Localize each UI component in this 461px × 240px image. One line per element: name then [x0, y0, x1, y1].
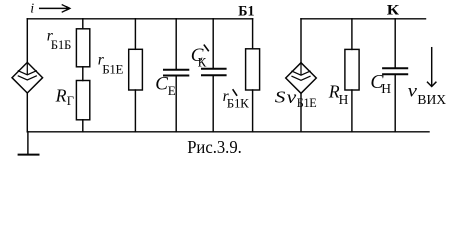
capacitor CH plate bottom	[383, 73, 407, 75]
capacitor CH plate top	[383, 67, 407, 69]
controlled source SvB1E arrow stem	[300, 63, 302, 75]
svg-text:Г: Г	[67, 94, 74, 108]
wire rB1E to bottom rail	[134, 90, 136, 132]
wire branch CH top	[394, 19, 396, 68]
current source G1 arrow chevron 2	[18, 76, 36, 80]
capacitor CK plate bottom	[202, 74, 226, 76]
svg-text:Б1Е: Б1Е	[102, 62, 123, 77]
wire SvB1E to bottom rail	[300, 93, 302, 132]
ground lead	[27, 132, 29, 154]
prime mark of rB1K	[233, 90, 237, 95]
wire between rB1B and RG	[82, 67, 84, 81]
svg-text:Б1Е: Б1Е	[297, 96, 317, 110]
wire branch rB1E top	[134, 19, 136, 50]
resistor rB1K body	[246, 49, 260, 90]
wire CE to bottom rail	[175, 76, 177, 131]
output voltage arrowhead	[428, 82, 436, 86]
wire RG to bottom rail	[82, 120, 84, 132]
input current arrowhead	[62, 5, 69, 12]
svg-text:Е: Е	[168, 83, 176, 98]
wire rB1K to bottom rail	[252, 90, 254, 132]
input current arrow line	[40, 7, 69, 9]
current source G1 arrow chevron 1	[18, 71, 36, 75]
svg-text:Б1Б: Б1Б	[51, 38, 71, 52]
svg-text:R: R	[55, 86, 67, 106]
svg-text:К: К	[198, 55, 207, 70]
resistor rB1B body	[76, 29, 89, 67]
wire RH to bottom rail	[351, 90, 353, 132]
capacitor CK plate top	[202, 68, 226, 70]
wire left edge lower	[26, 93, 28, 132]
controlled source SvB1E arrow chevron 2	[292, 76, 310, 80]
wire branch SvB1E top	[300, 19, 302, 63]
wire left edge upper	[26, 19, 28, 63]
current source G1 arrow stem	[26, 62, 28, 74]
output voltage arrow line	[431, 48, 433, 85]
resistor RH body	[345, 49, 359, 90]
wire top rail left (node B1 section)	[27, 18, 252, 20]
wire branch RH top	[351, 19, 353, 50]
svg-text:ВИХ: ВИХ	[417, 92, 446, 107]
svg-text:Б1: Б1	[238, 3, 254, 19]
svg-text:v: v	[408, 81, 417, 101]
svg-text:Рис.3.9.: Рис.3.9.	[187, 137, 242, 157]
ground bar	[19, 154, 39, 156]
svg-text:v: v	[287, 87, 297, 107]
controlled source SvB1E diamond	[286, 63, 317, 94]
svg-text:К: К	[387, 1, 399, 18]
current source G1 diamond	[12, 62, 43, 93]
svg-text:S: S	[275, 88, 286, 107]
capacitor CE plate bottom	[164, 75, 188, 77]
svg-text:i: i	[30, 1, 34, 16]
wire branch rB1B top	[82, 19, 84, 29]
controlled source SvB1E arrow chevron 1	[292, 71, 310, 75]
svg-text:C: C	[155, 74, 168, 95]
svg-text:Б1К: Б1К	[227, 95, 249, 110]
prime mark of CK	[204, 45, 208, 50]
capacitor CE plate top	[164, 69, 188, 71]
wire CH to bottom rail	[394, 75, 396, 132]
wire branch CK top	[212, 19, 214, 68]
wire CK to bottom rail	[212, 76, 214, 132]
wire branch CE top	[175, 19, 177, 69]
resistor RG body	[76, 81, 89, 120]
resistor rB1E body	[129, 49, 143, 90]
wire bottom rail	[27, 131, 429, 133]
svg-text:Н: Н	[381, 81, 391, 96]
wire top rail right (node K section)	[301, 18, 426, 20]
wire branch rB1K top	[252, 19, 254, 49]
svg-text:Н: Н	[339, 92, 349, 107]
